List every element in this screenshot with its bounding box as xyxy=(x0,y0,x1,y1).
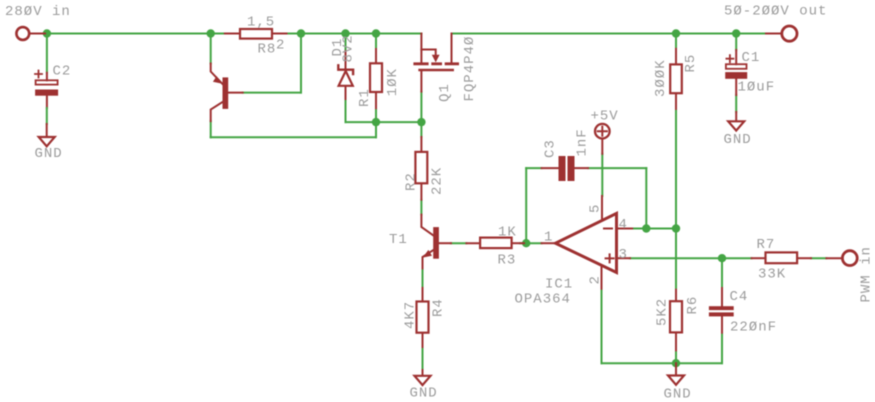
svg-text:R1: R1 xyxy=(357,88,373,107)
pin T2 base xyxy=(228,92,243,94)
pin op-amp 4 xyxy=(618,228,632,230)
terminal 50-200V out xyxy=(782,26,797,41)
wire C3 right horizontal xyxy=(588,167,646,169)
wire C3 left vertical xyxy=(525,168,527,243)
ground symbol GND2 xyxy=(728,121,744,130)
wire R2 top xyxy=(420,122,422,137)
svg-text:GND: GND xyxy=(410,385,438,401)
wire C1 to GND xyxy=(735,95,737,112)
pin output terminal xyxy=(766,33,781,35)
capacitor C1 xyxy=(726,55,747,78)
junction D1 on rail xyxy=(341,29,349,37)
pin R4 bottom xyxy=(422,333,424,347)
wire T2 collector drop xyxy=(210,121,212,137)
pin Q1 gate xyxy=(420,71,422,91)
svg-text:1,5: 1,5 xyxy=(247,14,275,30)
pin R8 right xyxy=(272,33,287,35)
svg-text:1: 1 xyxy=(544,230,553,246)
capacitor C3 xyxy=(559,156,575,181)
ground symbol GND3 xyxy=(415,376,431,385)
wire R2 bottom xyxy=(420,200,422,215)
pin R2 bottom xyxy=(420,183,422,199)
supply symbol +5V xyxy=(595,124,610,139)
op-amp IC1 xyxy=(556,213,617,272)
wire R6 top xyxy=(675,229,677,290)
junction T2 emitter on rail xyxy=(207,29,215,37)
svg-text:R2: R2 xyxy=(404,172,420,191)
junction pin3 C4 R7 node xyxy=(718,254,726,262)
pin T1 emitter xyxy=(423,250,434,268)
junction input node xyxy=(43,29,51,37)
wire C2 to GND xyxy=(46,108,48,124)
pin C1 top xyxy=(735,50,737,64)
pin T2 emitter xyxy=(211,64,223,85)
svg-text:IC1: IC1 xyxy=(545,276,573,292)
svg-text:2: 2 xyxy=(276,37,285,53)
junction R5 on out rail xyxy=(672,29,680,37)
pin R7 right xyxy=(797,257,811,259)
resistor R5 xyxy=(670,64,682,93)
wire R4 bottom xyxy=(422,347,424,370)
wire R1 top xyxy=(375,34,377,50)
pin input terminal xyxy=(30,33,45,35)
pin R6 bottom xyxy=(675,332,677,350)
pin C2 top xyxy=(46,73,48,81)
junction R1 bottom gate node xyxy=(372,118,380,126)
svg-text:R5: R5 xyxy=(683,54,699,73)
svg-text:5: 5 xyxy=(588,204,604,213)
pin R5 top xyxy=(675,49,677,65)
svg-text:5K2: 5K2 xyxy=(655,298,671,326)
capacitor C2 xyxy=(35,71,58,96)
wire bottom ground rail xyxy=(602,362,723,364)
wire D1 bottom xyxy=(345,99,347,122)
svg-text:22K: 22K xyxy=(430,167,446,195)
wire R7 to PWM terminal xyxy=(811,257,826,259)
wire R5 top xyxy=(675,34,677,49)
junction op-amp output node xyxy=(522,239,530,247)
resistor R3 xyxy=(480,238,512,249)
resistor R4 xyxy=(417,302,429,333)
pin R1 top xyxy=(375,49,377,63)
pin C3 right xyxy=(576,167,589,169)
wire R5 bottom to pin4 node xyxy=(675,109,677,229)
svg-text:GND: GND xyxy=(664,387,692,402)
transistor T1 xyxy=(423,227,439,259)
pin R3 right xyxy=(512,242,524,244)
resistor R1 xyxy=(370,63,382,92)
svg-text:GND: GND xyxy=(35,146,63,162)
pin GND1 xyxy=(46,124,48,137)
pin R8 left xyxy=(225,33,240,35)
svg-text:1ØuF: 1ØuF xyxy=(738,80,776,96)
svg-text:PWM in: PWM in xyxy=(859,246,875,302)
svg-text:R4: R4 xyxy=(431,298,447,317)
svg-text:4: 4 xyxy=(619,217,628,233)
pin GND2 xyxy=(735,112,737,121)
mosfet Q1 xyxy=(413,55,459,70)
ground symbol GND4 xyxy=(668,376,684,385)
svg-text:4K7: 4K7 xyxy=(403,301,419,329)
pin D1 top xyxy=(345,51,347,68)
pin PWM terminal xyxy=(826,257,841,259)
svg-text:3: 3 xyxy=(619,247,628,263)
wire Q1 gate drop xyxy=(420,92,422,123)
junction R5 R6 pin4 node xyxy=(672,224,680,232)
wire T2 emitter drop xyxy=(210,34,212,64)
pin R1 bottom xyxy=(375,92,377,108)
wire up to R1 bottom junction xyxy=(375,122,377,137)
transistor T2 xyxy=(213,76,228,109)
wire R1 bottom xyxy=(375,108,377,122)
ground symbol GND1 xyxy=(39,137,55,146)
wire R6 bottom xyxy=(675,350,677,363)
pin D1 bottom xyxy=(345,87,347,99)
wire bottom-left rail xyxy=(211,136,376,138)
wire D1 top drop xyxy=(345,34,347,52)
svg-text:C4: C4 xyxy=(730,289,749,305)
resistor R2 xyxy=(415,152,427,183)
junction R1 on rail xyxy=(372,29,380,37)
resistor R8 xyxy=(240,29,272,39)
resistor R6 xyxy=(670,301,682,332)
svg-text:2: 2 xyxy=(588,275,604,284)
pin GND4 xyxy=(675,363,677,375)
pin R6 top xyxy=(675,290,677,302)
pin GND3 xyxy=(422,370,424,376)
wire T1 emitter to R4 xyxy=(422,268,424,288)
pin T2 collector xyxy=(211,102,223,121)
svg-text:R8: R8 xyxy=(258,42,277,58)
svg-text:R3: R3 xyxy=(498,252,517,268)
wire T2 base horizontal xyxy=(243,92,301,94)
pin R2 top xyxy=(420,137,422,152)
wire C3 right vertical xyxy=(645,168,647,228)
svg-text:1ØK: 1ØK xyxy=(385,68,401,96)
svg-text:3ØØK: 3ØØK xyxy=(653,59,669,97)
wire T2 base vertical xyxy=(300,34,302,93)
pin Q1 bulk branch xyxy=(421,50,435,57)
wire C3 left horizontal xyxy=(526,167,541,169)
wire top rail left (280V in to Q1 source) xyxy=(44,33,421,35)
pin Q1 source xyxy=(420,34,422,63)
junction T2 base on rail xyxy=(297,29,305,37)
pin op-amp 5 xyxy=(601,196,603,220)
svg-text:R7: R7 xyxy=(757,237,776,253)
zener diode D1 xyxy=(338,65,353,86)
svg-text:FQP4P4Ø: FQP4P4Ø xyxy=(462,36,478,102)
svg-text:C3: C3 xyxy=(543,139,559,158)
svg-text:22ØnF: 22ØnF xyxy=(730,320,777,336)
pin +5V supply xyxy=(601,139,603,154)
svg-text:33K: 33K xyxy=(758,267,786,283)
pin C3 left xyxy=(542,167,558,169)
wire C2 drop from input rail xyxy=(46,34,48,73)
resistor R7 xyxy=(766,252,798,263)
wire op-amp pin 4 to divider xyxy=(632,228,676,230)
pin R4 top xyxy=(422,288,424,302)
wire +5V to op-amp pin 5 xyxy=(601,154,603,196)
wire C4 top xyxy=(721,258,723,288)
pin C4 bottom xyxy=(721,316,723,332)
svg-text:C2: C2 xyxy=(53,63,72,79)
wire node to R7 xyxy=(722,257,752,259)
wire op-amp pin 3 to R7 node xyxy=(630,257,722,259)
pin C1 bottom xyxy=(735,78,737,95)
svg-text:R6: R6 xyxy=(685,296,701,315)
svg-text:5Ø-2ØØV out: 5Ø-2ØØV out xyxy=(724,4,827,20)
pin C4 top xyxy=(721,288,723,306)
pin Q1 drain xyxy=(451,34,453,63)
pin R3 left xyxy=(466,242,480,244)
svg-text:1K: 1K xyxy=(498,224,517,240)
pin R7 left xyxy=(752,257,766,259)
wire R3 to op-amp output node xyxy=(520,242,542,244)
svg-text:8V2: 8V2 xyxy=(341,34,357,62)
junction ground rail node xyxy=(672,359,680,367)
wire gate node horizontal xyxy=(346,121,422,123)
pin op-amp 3 xyxy=(618,257,630,259)
wire C1 drop xyxy=(735,34,737,51)
terminal PWM in xyxy=(842,251,857,266)
pin op-amp output 1 xyxy=(542,242,555,244)
wire top rail right (Q1 drain to out) xyxy=(452,33,767,35)
junction gate R2 node xyxy=(417,118,425,126)
junction C3 pin4 node xyxy=(642,224,650,232)
svg-text:28ØV in: 28ØV in xyxy=(5,4,71,20)
svg-text:OPA364: OPA364 xyxy=(515,292,571,308)
wire op-amp pin 2 drop xyxy=(601,289,603,364)
pin C2 bottom xyxy=(46,95,48,108)
pin R5 bottom xyxy=(675,93,677,109)
svg-text:Q1: Q1 xyxy=(437,83,453,102)
svg-text:+5V: +5V xyxy=(591,109,619,125)
svg-text:T1: T1 xyxy=(389,232,408,248)
wire T1 base to R3 xyxy=(451,242,466,244)
pin T1 base xyxy=(439,242,451,244)
pin T1 collector xyxy=(421,215,433,236)
pin op-amp 2 xyxy=(601,266,603,289)
svg-text:1nF: 1nF xyxy=(575,128,591,156)
capacitor C4 xyxy=(709,306,734,316)
terminal 280V in xyxy=(16,27,29,40)
svg-text:C1: C1 xyxy=(742,50,761,66)
wire C4 bottom xyxy=(721,333,723,364)
junction C1 on out rail xyxy=(732,29,740,37)
svg-text:GND: GND xyxy=(724,132,752,148)
